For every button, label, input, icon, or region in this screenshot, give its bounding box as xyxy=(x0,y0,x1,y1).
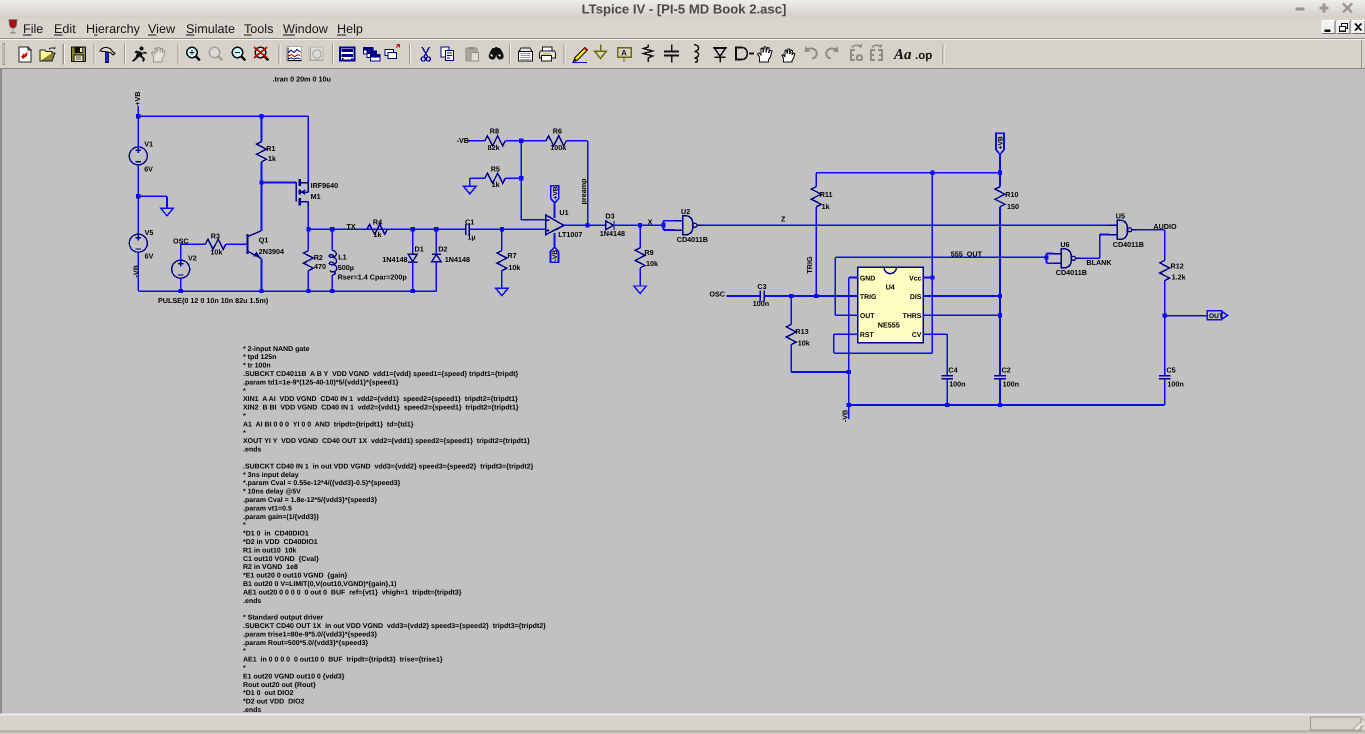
svg-text:*: * xyxy=(243,522,246,529)
junction top rail / +VB xyxy=(998,171,1002,175)
svg-text:* tr 100n: * tr 100n xyxy=(243,363,271,370)
wire to ground branch xyxy=(138,195,167,197)
svg-text:1N4148: 1N4148 xyxy=(600,229,625,238)
svg-text:.op: .op xyxy=(915,50,932,62)
wire feedback vertical xyxy=(520,141,522,220)
toolbar icon: redo xyxy=(826,47,838,59)
svg-text:*: * xyxy=(243,388,246,395)
junction U6 input bar xyxy=(1044,255,1048,259)
svg-text:.ends: .ends xyxy=(243,446,261,454)
resistor R13 xyxy=(786,324,796,344)
status bar xyxy=(0,714,1365,716)
wire bottom rail left xyxy=(138,290,436,292)
ground (left) xyxy=(161,208,174,216)
svg-text:6V: 6V xyxy=(145,252,154,261)
junction R8/R6 xyxy=(519,139,523,143)
svg-text:* 2-input NAND gate: * 2-input NAND gate xyxy=(243,345,310,353)
mdi minimize xyxy=(1322,21,1335,34)
svg-text:R11: R11 xyxy=(820,190,833,199)
svg-text:500µ: 500µ xyxy=(338,263,354,272)
svg-text:R1 in out10 10k: R1 in out10 10k xyxy=(243,546,296,554)
wire preamp vertical xyxy=(587,141,589,226)
port OUT xyxy=(1207,311,1222,320)
toolbar icon: find xyxy=(489,47,504,60)
svg-text:DIS: DIS xyxy=(910,294,922,301)
svg-text:1N4148: 1N4148 xyxy=(382,255,407,264)
ground (R7) xyxy=(496,288,509,296)
svg-text:R12: R12 xyxy=(1171,262,1184,271)
svg-text:*: * xyxy=(243,413,246,420)
svg-text:.ends: .ends xyxy=(243,706,261,714)
svg-text:AUDIO: AUDIO xyxy=(1153,222,1177,231)
svg-text:R2: R2 xyxy=(314,253,323,262)
svg-text:XOUT YI Y VDD VGND CD40 OUT: XOUT YI Y VDD VGND CD40 OUT 1X vdd2={vdd… xyxy=(243,437,530,445)
wire mid rail (TX net) xyxy=(308,228,465,230)
svg-text:100n: 100n xyxy=(753,299,769,308)
wire U6 input bar xyxy=(1046,254,1048,264)
svg-text:*: * xyxy=(243,430,246,437)
svg-text:100n: 100n xyxy=(1167,380,1183,389)
wire V2 bottom xyxy=(180,278,182,291)
junction M1 drain / mid rail xyxy=(306,227,310,231)
svg-text:Aa: Aa xyxy=(893,47,912,63)
svg-text:Rser=1.4 Cpar=200p: Rser=1.4 Cpar=200p xyxy=(338,273,408,282)
wire R13 top lead xyxy=(790,296,792,324)
wire top rail xyxy=(138,115,308,117)
toolbar icon: drag xyxy=(782,49,795,62)
wire R6 to preamp corner xyxy=(566,140,587,142)
svg-text:CD4011B: CD4011B xyxy=(677,235,708,244)
wire OUT pin loop xyxy=(835,314,858,316)
wire D1 bottom lead xyxy=(412,262,414,291)
svg-text:+VB: +VB xyxy=(133,92,142,106)
svg-text:C5: C5 xyxy=(1166,366,1175,375)
wire R7 bottom lead xyxy=(501,271,503,289)
svg-text:*D2 in VDD CD40DIO1: *D2 in VDD CD40DIO1 xyxy=(243,538,318,546)
capacitor C4 xyxy=(941,375,953,377)
wire R13 bottom xyxy=(790,345,792,372)
wire Q1 collector up xyxy=(261,183,263,231)
svg-text:*.param Cval = 0.55e-12*4/({vd: *.param Cval = 0.55e-12*4/({vdd3}-0.5)*{… xyxy=(243,479,401,487)
svg-text:.tran 0 20m 0 10u: .tran 0 20m 0 10u xyxy=(273,75,331,84)
wire R12 to OUT node xyxy=(1164,281,1166,316)
svg-text:Help: Help xyxy=(337,22,363,36)
junction Vcc xyxy=(930,275,934,279)
svg-text:R1: R1 xyxy=(266,144,275,153)
resistor R5 xyxy=(485,173,505,183)
svg-text:* 3ns input delay: * 3ns input delay xyxy=(243,471,299,479)
resistor R7 xyxy=(497,251,507,271)
svg-text:.param Cval = 1.8e-12*5/{vdd3}: .param Cval = 1.8e-12*5/{vdd3}*{speed3} xyxy=(243,496,377,504)
wire feedback to - input xyxy=(521,219,546,221)
junction D1 rail xyxy=(411,289,415,293)
transistor M1 IRF9640 xyxy=(296,179,308,206)
toolbar icon: place inductor xyxy=(694,45,699,63)
wire C2 bottom xyxy=(999,379,1001,405)
wire OSC to C3 xyxy=(727,295,761,297)
toolbar icon: waveform xyxy=(287,47,302,62)
gate U5 CD4011B xyxy=(1117,220,1128,239)
wire -VB to R8 xyxy=(468,140,485,142)
junction R5/feedback xyxy=(519,176,523,180)
diode D1 xyxy=(408,254,418,262)
svg-text:D1: D1 xyxy=(415,245,424,254)
wire BLANK net xyxy=(1081,257,1100,259)
toolbar icon: zoom out xyxy=(232,47,245,60)
svg-text:150: 150 xyxy=(1007,202,1019,211)
junction V1-/V5+/gnd xyxy=(136,194,140,198)
svg-text:.param vt1=0.5: .param vt1=0.5 xyxy=(243,505,292,512)
svg-text:D2: D2 xyxy=(438,245,447,254)
wire U1 V+ pin xyxy=(554,203,556,218)
svg-text:GND: GND xyxy=(860,275,875,282)
svg-text:*: * xyxy=(243,665,246,672)
schematic canvas xyxy=(0,68,1365,69)
svg-text:Rout out20 out {Rout}: Rout out20 out {Rout} xyxy=(243,681,316,689)
mdi close xyxy=(1352,21,1365,34)
wire DIS pin xyxy=(923,295,1000,297)
svg-text:-VB: -VB xyxy=(132,265,141,277)
svg-text:PULSE(0 12 0 10n 10n 82u 1.5m): PULSE(0 12 0 10n 10n 82u 1.5m) xyxy=(158,296,269,305)
svg-text:Vcc: Vcc xyxy=(909,275,921,282)
svg-text:RST: RST xyxy=(860,332,875,339)
svg-text:* 10ns delay @5V: * 10ns delay @5V xyxy=(243,488,301,496)
svg-text:OSC: OSC xyxy=(709,289,725,298)
junction THRS xyxy=(998,313,1002,317)
wire 555 top rail xyxy=(816,172,1000,174)
diode D2 xyxy=(432,254,441,261)
toolbar icon: plot settings (disabled) xyxy=(309,47,323,61)
svg-text:82k: 82k xyxy=(488,143,500,152)
svg-text:X: X xyxy=(648,218,653,227)
wire R3 to Q1 base xyxy=(226,243,247,245)
svg-text:R2 in VGND 1e8: R2 in VGND 1e8 xyxy=(243,563,298,571)
svg-text:-VB: -VB xyxy=(552,250,559,262)
svg-text:TRIG: TRIG xyxy=(805,256,814,274)
toolbar icon: mirror xyxy=(851,45,862,61)
wire R11 to TRIG node xyxy=(815,207,817,296)
toolbar icon: undo xyxy=(805,47,817,59)
wire RST pin loop xyxy=(834,333,858,335)
toolbar icon: new schematic xyxy=(19,47,31,62)
svg-text:V2: V2 xyxy=(188,253,197,262)
wire D2 bottom lead xyxy=(435,262,437,292)
diode D3 xyxy=(606,221,614,230)
mdi restore xyxy=(1337,21,1350,34)
wire C3 to TRIG xyxy=(764,295,858,297)
toolbar gripper xyxy=(3,44,5,65)
svg-text:M1: M1 xyxy=(311,192,321,201)
svg-text:1k: 1k xyxy=(492,180,500,189)
voltage source V2 xyxy=(172,260,190,278)
IC U4 NE555 body xyxy=(858,267,924,342)
svg-text:.param Rout=500*5.0/{vdd3}*{sp: .param Rout=500*5.0/{vdd3}*{speed3} xyxy=(243,639,368,647)
wire Q1 emitter down xyxy=(261,258,263,291)
toolbar icon: place resistor xyxy=(644,45,653,63)
svg-text:D3: D3 xyxy=(605,212,614,221)
toolbar separators xyxy=(62,44,64,65)
svg-text:100n: 100n xyxy=(1003,380,1019,389)
wire M1 drain down xyxy=(307,206,309,229)
svg-text:+VB: +VB xyxy=(998,136,1005,149)
resistor R1 xyxy=(257,142,267,162)
svg-text:CD4011B: CD4011B xyxy=(1056,268,1087,277)
wire THRS pin xyxy=(923,314,1000,316)
toolbar icon: open xyxy=(40,47,56,62)
svg-text:OUT: OUT xyxy=(1209,313,1223,320)
toolbar icon: place ground xyxy=(595,45,607,59)
toolbar icon: paste (disabled) xyxy=(466,47,479,61)
voltage source V1 xyxy=(129,147,147,165)
wire R10 top lead xyxy=(999,173,1001,187)
svg-text:U1: U1 xyxy=(559,208,568,217)
svg-text:*D1 0 out DIO2: *D1 0 out DIO2 xyxy=(243,690,294,697)
toolbar icon: save xyxy=(72,47,86,62)
svg-text:OUT: OUT xyxy=(860,313,875,320)
resistor R11 xyxy=(811,187,821,207)
svg-text:R13: R13 xyxy=(795,327,808,336)
svg-text:THRS: THRS xyxy=(903,313,922,320)
wire D1 top lead xyxy=(412,229,414,254)
toolbar icon: move xyxy=(758,47,773,62)
toolbar icon: zoom extents (disabled) xyxy=(209,47,222,60)
wire C1 right to opamp - xyxy=(469,228,545,230)
svg-text:E1 out20 VGND out10 0 {vdd3}: E1 out20 VGND out10 0 {vdd3} xyxy=(243,672,345,680)
wire Vcc pin xyxy=(923,277,932,279)
ground (R5) xyxy=(464,186,477,194)
toolbar icon: schematic window xyxy=(340,48,355,61)
svg-text:C2: C2 xyxy=(1002,366,1011,375)
toolbar icon: cascade windows xyxy=(364,48,381,62)
wire +VB flag stub xyxy=(999,154,1001,172)
transistor Q1 2N3904 xyxy=(248,231,261,259)
svg-text:TRIG: TRIG xyxy=(860,294,876,301)
wire GND riser to -VB rail xyxy=(848,372,850,405)
svg-text:1k: 1k xyxy=(822,202,830,211)
maximize button xyxy=(1320,4,1329,13)
svg-text:U2: U2 xyxy=(681,207,690,216)
svg-text:*D2 out VDD DIO2: *D2 out VDD DIO2 xyxy=(243,699,305,706)
svg-text:2N3904: 2N3904 xyxy=(259,247,284,256)
svg-text:U6: U6 xyxy=(1060,240,1069,249)
svg-text:LT1007: LT1007 xyxy=(558,230,582,239)
svg-text:R8: R8 xyxy=(490,127,499,136)
svg-text:.SUBCKT CD4011B A B Y VDD VG: .SUBCKT CD4011B A B Y VDD VGND vdd1={vdd… xyxy=(243,370,518,378)
junction OUT node xyxy=(1163,314,1167,318)
junction L1 rail xyxy=(330,289,334,293)
svg-text:R10: R10 xyxy=(1005,190,1018,199)
toolbar icon: run xyxy=(132,47,147,63)
svg-text:*D1 0 in CD40DIO1: *D1 0 in CD40DIO1 xyxy=(243,530,309,538)
wire V5 bottom to rail xyxy=(137,252,139,291)
svg-text:10k: 10k xyxy=(646,259,658,268)
wire D3 to X xyxy=(614,224,664,226)
svg-text:NE555: NE555 xyxy=(878,321,900,330)
svg-text:.SUBCKT CD40 OUT 1X in out VD: .SUBCKT CD40 OUT 1X in out VDD VGND vdd3… xyxy=(243,622,546,630)
svg-text:U5: U5 xyxy=(1116,212,1125,221)
svg-text:*E1 out20 0 out10 VGND {gain}: *E1 out20 0 out10 VGND {gain} xyxy=(243,572,348,580)
svg-text:Window: Window xyxy=(283,22,329,36)
junction V2 bottom xyxy=(179,289,183,293)
resistor R6 xyxy=(546,136,566,146)
wire R7 top lead xyxy=(501,229,503,250)
junction DIS xyxy=(998,294,1002,298)
junction top rail / RST riser xyxy=(930,171,934,175)
svg-text:1µ: 1µ xyxy=(467,233,475,242)
wire C5 bottom xyxy=(1164,379,1166,405)
toolbar icon: draw wire xyxy=(572,48,588,63)
flag +VB (555 rail) xyxy=(996,133,1004,154)
wire R8 to junction xyxy=(505,140,521,142)
junction R1/Q1/gate xyxy=(259,180,263,184)
window title bar xyxy=(0,0,1365,18)
svg-text:V1: V1 xyxy=(144,140,153,149)
wire CV pin to C4 xyxy=(923,333,947,335)
wire R5 right lead xyxy=(505,177,521,179)
menu/toolbar groove xyxy=(0,38,1365,39)
svg-text:Tools: Tools xyxy=(244,22,273,36)
junction U2 input bar xyxy=(661,223,665,227)
menu bar xyxy=(0,18,1365,39)
svg-text:1N4148: 1N4148 xyxy=(445,255,470,264)
svg-text:* Standard output driver: * Standard output driver xyxy=(243,614,323,622)
svg-text:C3: C3 xyxy=(757,282,766,291)
toolbar icon: rotate xyxy=(871,45,882,61)
svg-text:File: File xyxy=(23,22,43,36)
wire R2 top lead xyxy=(307,229,309,250)
resistor R2 xyxy=(304,251,314,271)
junction preamp/output xyxy=(586,223,590,227)
svg-text:10k: 10k xyxy=(210,248,222,257)
svg-text:XIN1 A AI VDD VGND CD40 IN: XIN1 A AI VDD VGND CD40 IN 1 vdd2={vdd1}… xyxy=(243,395,518,403)
junction R2 rail xyxy=(306,289,310,293)
op-amp U1 LT1007 xyxy=(546,215,564,235)
toolbar icon: copy xyxy=(441,47,454,61)
wire Z net xyxy=(703,224,1110,226)
svg-text:R4: R4 xyxy=(373,217,382,226)
wire R1 top lead xyxy=(261,116,263,141)
toolbar icon: print preview xyxy=(519,48,533,61)
voltage source V5 xyxy=(129,234,147,252)
svg-text:+VB: +VB xyxy=(552,186,559,199)
svg-text:10k: 10k xyxy=(508,263,520,272)
inductor L1 xyxy=(329,250,337,274)
wire R1 bottom lead xyxy=(261,162,263,183)
svg-text:1k: 1k xyxy=(268,154,276,163)
toolbar icon: place capacitor xyxy=(664,45,679,63)
resistor R4 xyxy=(367,224,387,234)
wire -VB stub xyxy=(848,405,850,419)
wire OUT node to C5 xyxy=(1164,316,1166,376)
svg-text:CD4011B: CD4011B xyxy=(1113,240,1144,249)
wire +VB label stub xyxy=(137,106,139,116)
svg-text:.SUBCKT CD40 IN 1 in out VDD: .SUBCKT CD40 IN 1 in out VDD VGND vdd3={… xyxy=(243,462,534,470)
wire U1 output xyxy=(564,224,606,226)
svg-text:.param gain=(1/{vdd3}): .param gain=(1/{vdd3}) xyxy=(243,513,319,521)
svg-text:IRF9640: IRF9640 xyxy=(311,181,339,190)
svg-text:A: A xyxy=(621,49,627,58)
wire GND pin xyxy=(849,277,858,279)
junction R1 top xyxy=(259,114,263,118)
svg-text:AE1 in 0 0 0 0 0 out10 0 BU: AE1 in 0 0 0 0 0 out10 0 BUF tripdt={tri… xyxy=(243,656,443,664)
resistor R12 xyxy=(1160,260,1170,280)
svg-text:View: View xyxy=(148,22,176,36)
wire U2 input bar xyxy=(663,221,665,230)
app icon wine glass xyxy=(9,20,17,33)
wire R11 top lead xyxy=(815,173,817,187)
svg-text:6V: 6V xyxy=(144,165,153,174)
wire L1 top lead xyxy=(331,229,333,250)
wire R2 bottom lead xyxy=(307,271,309,291)
capacitor C3 xyxy=(759,291,761,302)
toolbar icon: cut xyxy=(421,47,430,61)
wire R10 down to C2 xyxy=(999,207,1001,376)
wire top rail drop to M1 source xyxy=(307,116,309,179)
svg-text:C1 out10 VGND {Cval}: C1 out10 VGND {Cval} xyxy=(243,555,319,563)
svg-text:BLANK: BLANK xyxy=(1086,258,1112,267)
svg-text:.param td1=1e-9*(125-40-10)*5/: .param td1=1e-9*(125-40-10)*5/{vdd1}*{sp… xyxy=(243,378,399,386)
svg-text:-VB: -VB xyxy=(457,136,469,145)
resistor R10 xyxy=(995,187,1005,207)
wire gate net xyxy=(262,182,297,184)
wire R9 bottom lead xyxy=(639,268,641,286)
wire R5 left to ground xyxy=(470,177,485,179)
toolbar icon: zoom back xyxy=(254,47,269,61)
svg-text:1.2k: 1.2k xyxy=(1172,273,1186,282)
svg-text:V5: V5 xyxy=(145,228,154,237)
svg-text:R7: R7 xyxy=(507,251,516,260)
capacitor C1 xyxy=(465,224,467,235)
svg-text:U4: U4 xyxy=(886,283,895,292)
svg-text:C4: C4 xyxy=(948,366,957,375)
junction R13/GND riser xyxy=(847,370,851,374)
svg-text:C1: C1 xyxy=(465,218,474,227)
junction C4 rail xyxy=(945,403,949,407)
junction X node xyxy=(638,223,642,227)
toolbar icon: tile windows xyxy=(385,45,400,59)
svg-text:R5: R5 xyxy=(491,164,500,173)
wire AUDIO net xyxy=(1137,229,1165,231)
wire OSC corner xyxy=(181,243,206,245)
wire V5 top xyxy=(137,196,139,234)
svg-text:B1 out20 0 V=LIMIT(0,V(out10,V: B1 out20 0 V=LIMIT(0,V(out10,VGND)*{gain… xyxy=(243,580,396,588)
svg-text:AE1 out20 0 0 0 0 0 out 0 BU: AE1 out20 0 0 0 0 0 out 0 BUF ref={vt1} … xyxy=(243,588,462,596)
svg-text:Z: Z xyxy=(781,214,786,223)
svg-text:555 OUT: 555 OUT xyxy=(951,249,983,258)
svg-text:*: * xyxy=(243,648,246,655)
junction C2 rail xyxy=(998,403,1002,407)
status grip panel xyxy=(1311,717,1362,730)
svg-text:.param trise1=80e-9*5.0/{vdd3}: .param trise1=80e-9*5.0/{vdd3}*{speed3} xyxy=(243,630,377,638)
wire C4 bottom xyxy=(946,379,948,405)
svg-text:100k: 100k xyxy=(550,143,566,152)
svg-text:.ends: .ends xyxy=(243,597,261,605)
svg-text:10k: 10k xyxy=(798,338,810,347)
capacitor C5 xyxy=(1159,375,1171,377)
resistor R9 xyxy=(635,248,645,268)
svg-text:100n: 100n xyxy=(949,380,965,389)
junction L1 top xyxy=(330,227,334,231)
svg-text:R9: R9 xyxy=(644,248,653,257)
close button xyxy=(1343,4,1352,13)
svg-text:LTspice IV - [PI-5 MD Book 2.a: LTspice IV - [PI-5 MD Book 2.asc] xyxy=(582,2,787,17)
resistor R8 xyxy=(485,136,505,146)
wire L1 bottom lead xyxy=(331,275,333,291)
svg-text:L1: L1 xyxy=(338,252,346,261)
svg-text:XIN2 B BI VDD VGND CD40 IN: XIN2 B BI VDD VGND CD40 IN 1 vdd2={vdd1}… xyxy=(243,404,519,412)
svg-text:A1 AI BI 0 0 0 YI 0 0 AND: A1 AI BI 0 0 0 YI 0 0 AND tripdt={tripdt… xyxy=(243,420,414,428)
wire R6 left lead xyxy=(521,140,546,142)
